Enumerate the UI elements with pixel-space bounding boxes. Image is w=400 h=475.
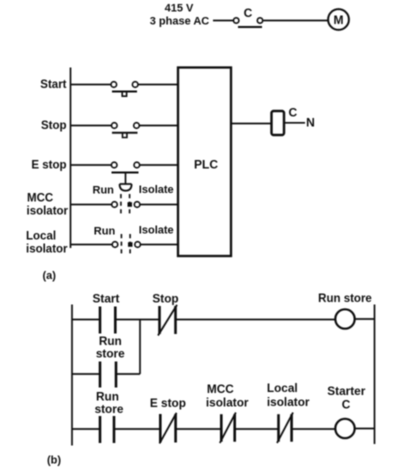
svg-text:Run store: Run store xyxy=(318,293,372,305)
svg-text:store: store xyxy=(96,347,125,361)
svg-text:isolator: isolator xyxy=(27,206,69,218)
svg-text:Start: Start xyxy=(40,79,66,91)
svg-text:C: C xyxy=(342,398,351,412)
svg-text:store: store xyxy=(95,402,124,416)
svg-text:isolator: isolator xyxy=(206,396,249,410)
svg-text:Isolate: Isolate xyxy=(139,184,174,196)
svg-text:PLC: PLC xyxy=(194,158,218,172)
svg-text:(a): (a) xyxy=(43,270,57,282)
svg-text:Local: Local xyxy=(267,381,298,395)
svg-text:Isolate: Isolate xyxy=(139,225,174,237)
svg-text:Run: Run xyxy=(93,185,115,197)
svg-text:N: N xyxy=(306,116,315,130)
svg-text:(b): (b) xyxy=(47,455,61,467)
svg-text:Stop: Stop xyxy=(152,292,178,306)
svg-text:Starter: Starter xyxy=(327,384,365,398)
svg-text:Run: Run xyxy=(94,226,116,238)
svg-text:C: C xyxy=(288,106,297,120)
svg-text:415 V: 415 V xyxy=(165,3,194,15)
svg-text:Stop: Stop xyxy=(41,120,67,132)
svg-text:3 phase AC: 3 phase AC xyxy=(150,16,210,28)
svg-text:Start: Start xyxy=(93,292,120,306)
svg-text:E stop: E stop xyxy=(150,396,186,410)
svg-text:MCC: MCC xyxy=(27,193,53,205)
svg-text:Local: Local xyxy=(26,231,56,243)
svg-text:MCC: MCC xyxy=(207,382,234,396)
svg-text:M: M xyxy=(334,13,344,27)
svg-text:isolator: isolator xyxy=(267,395,310,409)
svg-text:isolator: isolator xyxy=(26,244,68,256)
svg-text:E stop: E stop xyxy=(31,160,66,172)
svg-text:C: C xyxy=(244,6,253,20)
